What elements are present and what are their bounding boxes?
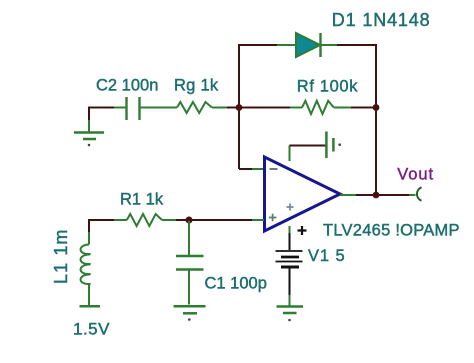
battery plus sign xyxy=(298,226,307,235)
node C junction dot xyxy=(373,192,380,199)
wire: C2 ground stub vertical xyxy=(88,107,90,133)
inductor L1 xyxy=(81,245,91,285)
label V1 value xyxy=(308,247,346,265)
svg-text:Rg 1k: Rg 1k xyxy=(174,77,219,95)
1.5V supply terminal bar xyxy=(80,305,101,308)
svg-text:C1 100p: C1 100p xyxy=(205,275,267,293)
label L1 value xyxy=(51,228,71,284)
wire: node C to Vout terminal xyxy=(376,194,416,196)
wire: right vertical (diode to output) xyxy=(375,44,377,196)
label 1.5V xyxy=(73,320,110,339)
resistor R1 xyxy=(127,214,162,226)
op-amp U1 triangle xyxy=(265,157,341,231)
svg-text:R1 1k: R1 1k xyxy=(120,191,164,209)
wire: L1 top stub xyxy=(88,219,90,245)
node D junction dot xyxy=(186,217,193,224)
wire: L1 bottom to 1.5V terminal xyxy=(88,285,90,307)
wire: L1 top corner to R1 xyxy=(89,219,127,221)
wire: node D down to C1 xyxy=(188,221,190,256)
svg-text:Vout: Vout xyxy=(397,166,434,184)
op-amp plus sign (middle) xyxy=(287,204,294,211)
resistor Rg xyxy=(177,102,212,113)
svg-text:TLV2465 !OPAMP: TLV2465 !OPAMP xyxy=(323,222,460,240)
wire: V+ pin to rotated ground xyxy=(290,146,326,162)
Vout terminal arc xyxy=(417,187,422,200)
wire: C2 to Rg xyxy=(140,107,177,109)
wire: V- pin to battery xyxy=(289,226,291,250)
ground (C1) xyxy=(174,306,206,321)
resistor Rf xyxy=(302,101,334,114)
wire: output to node C xyxy=(340,194,376,196)
svg-text:1.5V: 1.5V xyxy=(73,320,110,339)
svg-text:V1 5: V1 5 xyxy=(308,247,346,265)
diode D1 xyxy=(296,33,321,57)
wire: left feedback vertical xyxy=(238,44,240,169)
wire: diode row left xyxy=(239,44,296,46)
capacitor C1 xyxy=(176,256,204,270)
capacitor C2 xyxy=(127,97,140,120)
label C1 value xyxy=(205,275,267,293)
wire: Rf to node B xyxy=(334,107,376,109)
label U1 type xyxy=(323,222,460,240)
node A junction dot xyxy=(236,104,243,111)
svg-text:Rf 100k: Rf 100k xyxy=(297,78,358,96)
op-amp plus sign (input) xyxy=(269,214,277,222)
ground (C2) xyxy=(74,133,104,147)
node B junction dot xyxy=(373,104,380,111)
wire: battery to ground xyxy=(289,269,291,307)
ground (op-amp V+ reference, rotated) xyxy=(326,132,341,159)
wire: C1 bottom to ground xyxy=(188,270,190,305)
svg-text:C2 100n: C2 100n xyxy=(96,77,158,95)
wire: node D to non-inverting input xyxy=(189,219,264,221)
label D1 value xyxy=(332,10,431,30)
ground (V1) xyxy=(277,307,304,322)
label C2 value xyxy=(96,77,158,95)
op-amp minus sign xyxy=(270,168,278,170)
wire: inverting input xyxy=(239,168,264,170)
label Rf value xyxy=(297,78,358,96)
svg-text:L1 1m: L1 1m xyxy=(51,228,71,284)
label R1 value xyxy=(120,191,164,209)
label Vout xyxy=(397,166,434,184)
label Rg value xyxy=(174,77,219,95)
battery V1 xyxy=(276,251,303,267)
wire: R1 to node D xyxy=(162,219,189,221)
wire: Rg to node A xyxy=(212,107,239,109)
wire: diode row right xyxy=(321,44,376,46)
wire: C2 left stub horizontal xyxy=(89,107,126,109)
wire: node A to Rf xyxy=(239,107,302,109)
svg-text:D1 1N4148: D1 1N4148 xyxy=(332,10,431,30)
